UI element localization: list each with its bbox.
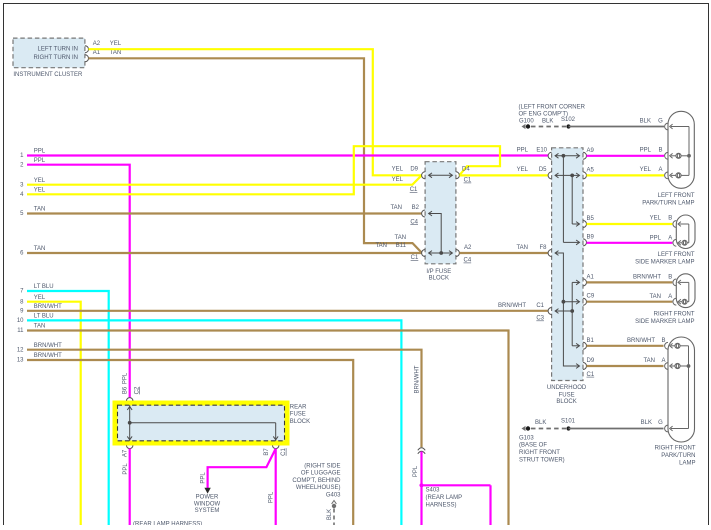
svg-text:PPL: PPL xyxy=(517,148,529,154)
svg-text:BLK: BLK xyxy=(640,119,651,125)
svg-text:9: 9 xyxy=(20,309,24,315)
svg-text:LT BLU: LT BLU xyxy=(34,284,54,290)
svg-text:TAN: TAN xyxy=(375,243,387,249)
svg-text:C3: C3 xyxy=(536,316,544,322)
svg-text:C9: C9 xyxy=(587,294,595,300)
svg-text:YEL: YEL xyxy=(34,178,46,184)
svg-text:D5: D5 xyxy=(539,167,547,173)
svg-text:WINDOW: WINDOW xyxy=(194,501,221,507)
svg-text:BLK: BLK xyxy=(327,509,333,520)
svg-text:HARNESS): HARNESS) xyxy=(426,503,457,509)
svg-text:C4: C4 xyxy=(464,258,472,264)
svg-text:C1: C1 xyxy=(410,187,418,193)
svg-text:B: B xyxy=(668,216,672,222)
svg-text:PPL: PPL xyxy=(413,465,419,477)
svg-text:C1: C1 xyxy=(411,255,419,261)
svg-text:RIGHT FRONT: RIGHT FRONT xyxy=(655,446,696,452)
svg-text:A: A xyxy=(668,294,672,300)
svg-text:PPL: PPL xyxy=(123,372,129,384)
svg-text:S102: S102 xyxy=(561,117,576,123)
svg-text:G103: G103 xyxy=(519,435,534,441)
svg-text:TAN: TAN xyxy=(34,246,46,252)
svg-text:YEL: YEL xyxy=(392,167,404,173)
svg-text:13: 13 xyxy=(17,358,24,364)
svg-text:YEL: YEL xyxy=(650,216,662,222)
svg-text:TAN: TAN xyxy=(516,245,528,251)
svg-text:FUSE: FUSE xyxy=(559,392,575,398)
svg-text:BLOCK: BLOCK xyxy=(556,399,576,405)
svg-text:YEL: YEL xyxy=(517,167,529,173)
svg-text:B9: B9 xyxy=(587,234,595,240)
svg-text:YEL: YEL xyxy=(110,41,122,47)
svg-text:G: G xyxy=(658,420,663,426)
svg-text:LEFT FRONT: LEFT FRONT xyxy=(658,252,695,258)
svg-text:B6: B6 xyxy=(123,386,129,394)
svg-text:B7: B7 xyxy=(264,448,270,456)
svg-text:PPL: PPL xyxy=(34,158,46,164)
svg-text:PPL: PPL xyxy=(34,149,46,155)
svg-text:PPL: PPL xyxy=(640,148,652,154)
svg-text:3: 3 xyxy=(20,182,24,188)
svg-text:BRN/WHT: BRN/WHT xyxy=(34,353,62,359)
svg-text:C2: C2 xyxy=(134,386,140,394)
svg-text:LAMP: LAMP xyxy=(679,461,695,467)
svg-text:PPL: PPL xyxy=(200,472,206,484)
svg-text:F8: F8 xyxy=(539,245,547,251)
svg-text:A1: A1 xyxy=(587,274,595,280)
svg-text:WHEELHOUSE): WHEELHOUSE) xyxy=(296,485,341,491)
svg-text:PARK/TURN LAMP: PARK/TURN LAMP xyxy=(642,201,694,207)
svg-text:A: A xyxy=(661,358,665,364)
svg-text:LEFT FRONT: LEFT FRONT xyxy=(658,193,695,199)
svg-text:TAN: TAN xyxy=(34,324,46,330)
svg-text:A2: A2 xyxy=(93,41,101,47)
svg-text:YEL: YEL xyxy=(640,167,652,173)
svg-text:RIGHT FRONT: RIGHT FRONT xyxy=(519,450,560,456)
svg-text:SYSTEM: SYSTEM xyxy=(195,508,220,514)
svg-text:SIDE MARKER LAMP: SIDE MARKER LAMP xyxy=(635,319,694,325)
svg-text:D4: D4 xyxy=(462,167,470,173)
svg-text:E10: E10 xyxy=(536,148,547,154)
svg-text:G100: G100 xyxy=(519,119,534,125)
svg-text:TAN: TAN xyxy=(395,235,407,241)
svg-text:4: 4 xyxy=(20,192,24,198)
svg-text:(REAR LAMP HARNESS): (REAR LAMP HARNESS) xyxy=(133,521,202,525)
svg-text:A: A xyxy=(668,235,672,241)
svg-text:BLK: BLK xyxy=(542,119,553,125)
svg-text:7: 7 xyxy=(20,289,24,295)
svg-text:OF LUGGAGE: OF LUGGAGE xyxy=(301,471,341,477)
svg-text:A7: A7 xyxy=(123,449,129,457)
svg-text:B2: B2 xyxy=(412,205,420,211)
svg-text:C1: C1 xyxy=(281,448,287,456)
svg-text:(RIGHT SIDE: (RIGHT SIDE xyxy=(304,463,340,469)
svg-text:(REAR LAMP: (REAR LAMP xyxy=(426,495,463,501)
svg-text:BLK: BLK xyxy=(535,420,546,426)
svg-text:POWER: POWER xyxy=(196,495,219,501)
svg-text:BLK: BLK xyxy=(641,420,652,426)
svg-text:B: B xyxy=(658,148,662,154)
svg-text:BRN/WHT: BRN/WHT xyxy=(498,303,526,309)
svg-text:10: 10 xyxy=(17,318,24,324)
svg-text:TAN: TAN xyxy=(643,358,655,364)
svg-text:12: 12 xyxy=(17,347,24,353)
svg-text:G: G xyxy=(658,119,663,125)
svg-text:5: 5 xyxy=(20,211,24,217)
svg-text:A: A xyxy=(658,167,662,173)
svg-text:B: B xyxy=(661,338,665,344)
svg-text:G403: G403 xyxy=(326,493,341,499)
svg-text:A5: A5 xyxy=(587,167,595,173)
svg-text:B1: B1 xyxy=(587,338,595,344)
svg-text:C1: C1 xyxy=(464,178,472,184)
svg-text:(LEFT FRONT CORNER: (LEFT FRONT CORNER xyxy=(519,104,586,110)
svg-text:B5: B5 xyxy=(587,216,595,222)
svg-text:SIDE MARKER LAMP: SIDE MARKER LAMP xyxy=(635,260,694,266)
svg-text:BRN/WHT: BRN/WHT xyxy=(34,343,62,349)
svg-text:1: 1 xyxy=(20,153,24,159)
svg-text:COMP'T, BEHIND: COMP'T, BEHIND xyxy=(292,478,341,484)
svg-text:B: B xyxy=(668,275,672,281)
svg-text:TAN: TAN xyxy=(390,205,402,211)
svg-text:YEL: YEL xyxy=(34,187,46,193)
svg-text:S403: S403 xyxy=(426,488,441,494)
svg-text:D9: D9 xyxy=(410,167,418,173)
svg-text:A2: A2 xyxy=(464,245,472,251)
svg-text:C1: C1 xyxy=(536,303,544,309)
svg-text:D9: D9 xyxy=(587,358,595,364)
svg-text:BRN/WHT: BRN/WHT xyxy=(414,365,420,393)
svg-text:BRN/WHT: BRN/WHT xyxy=(34,304,62,310)
svg-text:YEL: YEL xyxy=(34,295,46,301)
svg-text:BLOCK: BLOCK xyxy=(429,275,449,281)
svg-text:STRUT TOWER): STRUT TOWER) xyxy=(519,458,565,464)
svg-text:C4: C4 xyxy=(410,219,418,225)
svg-text:BRN/WHT: BRN/WHT xyxy=(627,338,655,344)
svg-text:FUSE: FUSE xyxy=(290,412,306,418)
svg-text:C1: C1 xyxy=(587,372,595,378)
svg-text:PPL: PPL xyxy=(650,235,662,241)
svg-text:TAN: TAN xyxy=(34,207,46,213)
svg-text:INSTRUMENT CLUSTER: INSTRUMENT CLUSTER xyxy=(13,72,83,78)
svg-text:UNDERHOOD: UNDERHOOD xyxy=(547,385,587,391)
svg-text:BRN/WHT: BRN/WHT xyxy=(633,275,661,281)
svg-text:TAN: TAN xyxy=(110,50,122,56)
svg-text:LEFT TURN IN: LEFT TURN IN xyxy=(38,46,78,52)
svg-text:A9: A9 xyxy=(587,148,595,154)
svg-text:PARK/TURN: PARK/TURN xyxy=(661,453,695,459)
svg-text:8: 8 xyxy=(20,299,24,305)
svg-text:S101: S101 xyxy=(561,419,576,425)
svg-text:I/P FUSE: I/P FUSE xyxy=(426,269,451,275)
svg-text:PPL: PPL xyxy=(123,463,129,475)
svg-text:B11: B11 xyxy=(396,243,407,249)
svg-text:LT BLU: LT BLU xyxy=(34,314,54,320)
svg-text:RIGHT FRONT: RIGHT FRONT xyxy=(654,312,695,318)
svg-text:(BASE OF: (BASE OF xyxy=(519,443,547,449)
svg-text:2: 2 xyxy=(20,162,24,168)
svg-text:6: 6 xyxy=(20,251,24,257)
svg-text:RIGHT TURN IN: RIGHT TURN IN xyxy=(34,55,78,61)
svg-text:TAN: TAN xyxy=(649,294,661,300)
svg-text:PPL: PPL xyxy=(268,491,274,503)
svg-text:11: 11 xyxy=(17,328,24,334)
svg-text:REAR: REAR xyxy=(290,405,307,411)
svg-text:BLOCK: BLOCK xyxy=(290,419,310,425)
svg-text:YEL: YEL xyxy=(392,177,404,183)
svg-text:A1: A1 xyxy=(93,50,101,56)
